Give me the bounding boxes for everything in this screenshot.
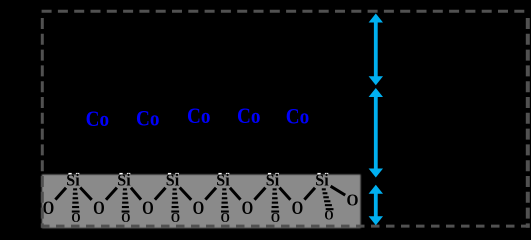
svg-text:Si: Si: [266, 171, 280, 190]
svg-text:O: O: [193, 199, 205, 219]
bond O3-Si3: [155, 188, 166, 200]
svg-text:O: O: [292, 199, 304, 219]
bond Si6-O7: [331, 186, 346, 195]
bond Si3-O4: [180, 188, 192, 200]
arrow double-headed vertical (middle region): [369, 88, 383, 178]
svg-text:Si: Si: [66, 171, 80, 190]
svg-text:O: O: [142, 199, 154, 219]
svg-text:Co: Co: [237, 103, 261, 128]
svg-text:O: O: [121, 211, 130, 226]
white highlight above Si6: [317, 173, 328, 175]
svg-text:O: O: [43, 199, 55, 219]
dashed border right: [526, 13, 530, 228]
hashed bond Si1=O: [72, 188, 80, 212]
svg-text:Co: Co: [286, 104, 310, 129]
bond O6-Si6: [304, 188, 315, 200]
svg-text:O: O: [271, 211, 280, 226]
hashed bond Si5=O: [271, 188, 279, 212]
hashed bond Si3=O: [171, 188, 179, 212]
svg-text:O: O: [93, 199, 105, 219]
white highlight above Si2: [119, 173, 130, 175]
svg-text:O: O: [171, 211, 180, 226]
white highlight above Si3: [168, 173, 179, 175]
svg-text:Co: Co: [86, 106, 110, 131]
white highlight above Si5: [268, 173, 279, 175]
dashed border left: [41, 13, 44, 228]
hashed bond Si2=O: [122, 188, 130, 212]
svg-text:O: O: [324, 208, 333, 223]
svg-text:O: O: [242, 199, 254, 219]
dashed border top: [42, 10, 530, 13]
svg-text:Si: Si: [117, 171, 131, 190]
hashed bond Si6=O: [322, 188, 334, 210]
svg-text:Si: Si: [216, 171, 230, 190]
substrate SiO2 slab: [0, 0, 1, 1]
svg-text:Si: Si: [166, 171, 180, 190]
svg-text:O: O: [221, 211, 230, 226]
arrow double-headed vertical (slab region): [369, 185, 383, 225]
white highlight above Si4: [218, 173, 229, 175]
bond O4-Si4: [205, 188, 216, 200]
bond O1-Si1: [55, 188, 66, 200]
dashed border bottom: [41, 225, 530, 228]
bond Si2-O3: [131, 188, 141, 200]
bond O5-Si5: [255, 188, 266, 200]
white highlight above Si1: [68, 173, 79, 175]
arrow double-headed vertical (top region): [369, 14, 383, 86]
svg-text:Si: Si: [315, 171, 329, 190]
bond Si4-O5: [230, 188, 241, 200]
svg-text:Co: Co: [187, 103, 211, 128]
svg-text:Co: Co: [136, 106, 160, 131]
svg-text:O: O: [71, 211, 80, 226]
svg-text:O: O: [347, 190, 359, 209]
bond Si1-O2: [80, 188, 92, 200]
bond O2-Si2: [106, 188, 117, 200]
hashed bond Si4=O: [221, 188, 229, 212]
bond Si5-O6: [280, 188, 291, 200]
